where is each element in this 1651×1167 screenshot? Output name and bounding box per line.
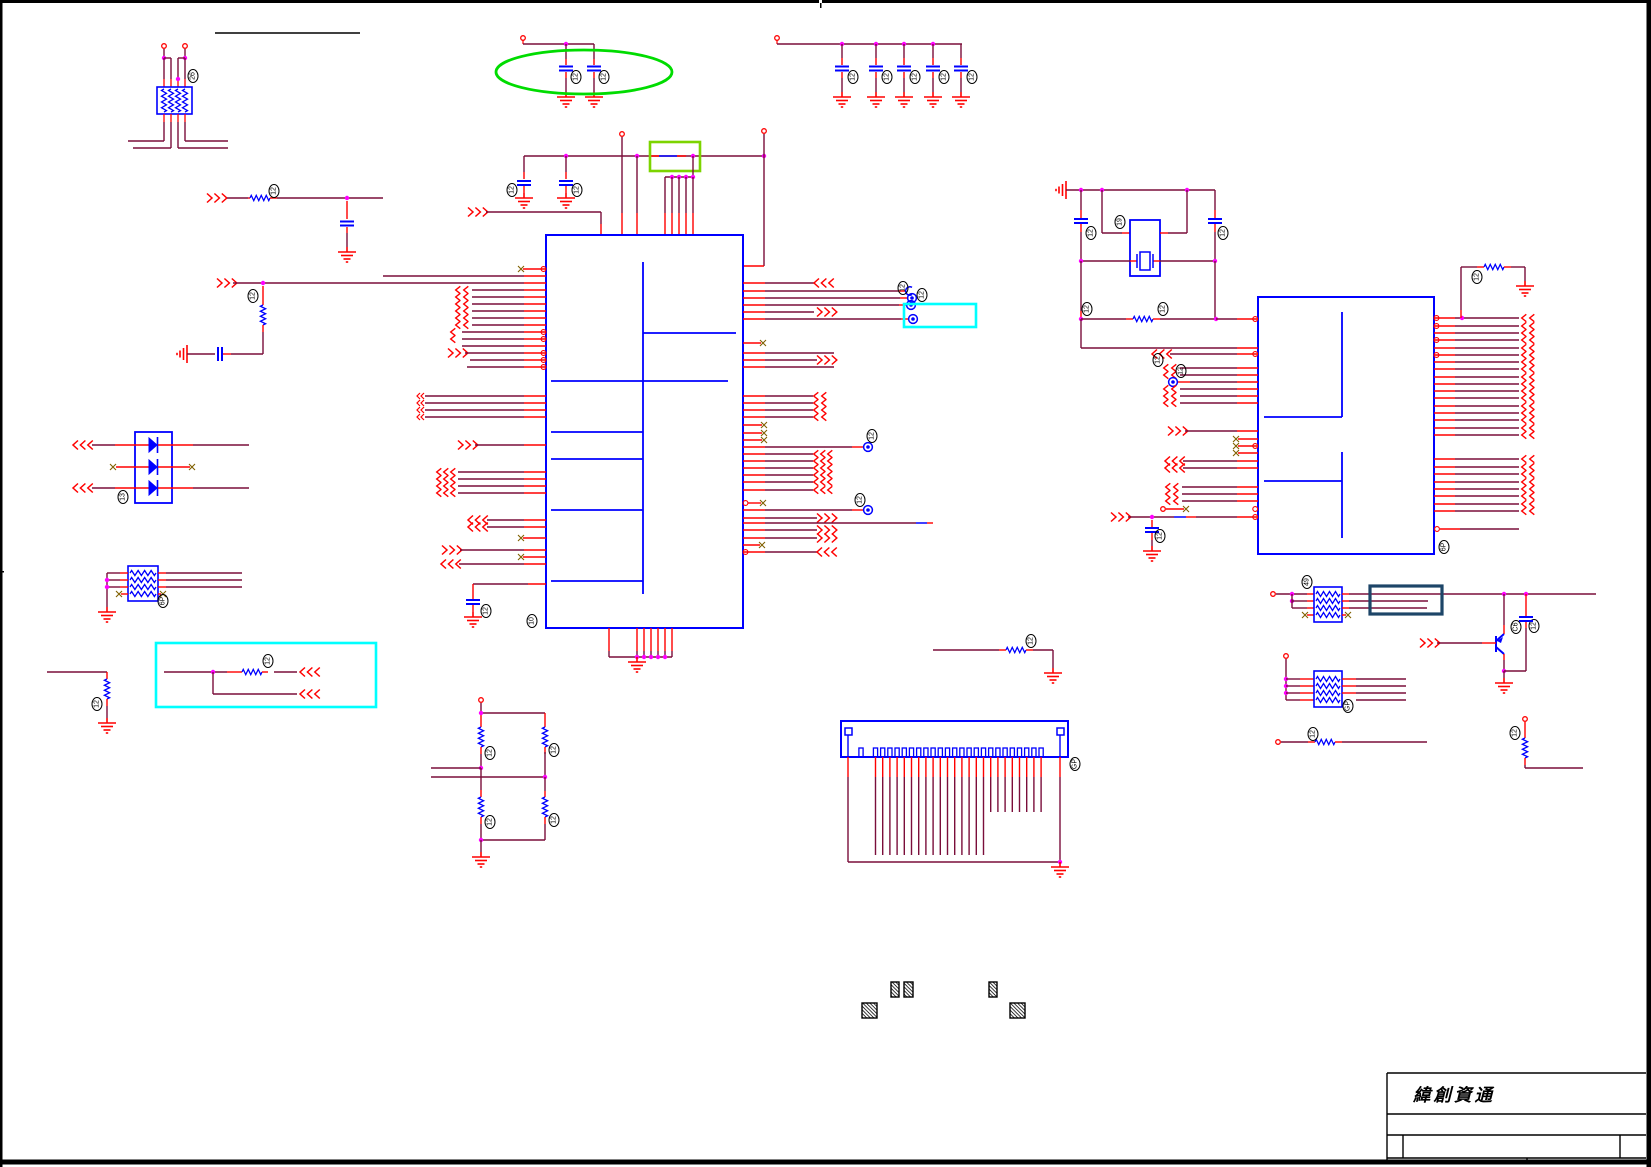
svg-text:12: 12	[912, 73, 919, 81]
svg-text:12: 12	[573, 73, 580, 81]
svg-text:12: 12	[265, 657, 272, 665]
svg-text:12: 12	[1220, 229, 1227, 237]
svg-text:12: 12	[601, 73, 608, 81]
svg-text:12: 12	[884, 73, 891, 81]
svg-text:12: 12	[551, 746, 558, 754]
svg-text:12: 12	[900, 284, 907, 292]
svg-text:49: 49	[1304, 578, 1311, 586]
svg-text:GP: GP	[1072, 759, 1079, 769]
svg-text:12: 12	[1310, 730, 1317, 738]
svg-text:12: 12	[850, 73, 857, 81]
svg-text:12: 12	[1178, 367, 1185, 375]
svg-text:12: 12	[869, 432, 876, 440]
svg-text:19: 19	[1117, 218, 1124, 226]
svg-text:12: 12	[919, 291, 926, 299]
svg-text:12: 12	[1157, 532, 1164, 540]
svg-text:12: 12	[250, 292, 257, 300]
svg-text:12: 12	[271, 187, 278, 195]
svg-text:12: 12	[1088, 229, 1095, 237]
svg-text:12: 12	[857, 496, 864, 504]
svg-text:12: 12	[941, 73, 948, 81]
svg-text:12: 12	[483, 607, 490, 615]
svg-text:12: 12	[1160, 305, 1167, 313]
svg-text:6P: 6P	[160, 596, 167, 605]
svg-text:26: 26	[190, 72, 197, 80]
svg-text:GP: GP	[1345, 701, 1352, 711]
svg-text:12: 12	[1084, 305, 1091, 313]
svg-text:C6: C6	[1513, 622, 1520, 631]
svg-text:緯創資通: 緯創資通	[1412, 1085, 1495, 1105]
svg-text:12: 12	[509, 186, 516, 194]
svg-text:13: 13	[120, 493, 127, 501]
svg-text:12: 12	[487, 818, 494, 826]
svg-text:10: 10	[529, 617, 536, 625]
svg-text:12: 12	[574, 186, 581, 194]
svg-text:12: 12	[1531, 622, 1538, 630]
svg-text:6P: 6P	[1441, 542, 1448, 551]
svg-text:12: 12	[1512, 729, 1519, 737]
svg-text:12: 12	[94, 700, 101, 708]
svg-text:12: 12	[1028, 637, 1035, 645]
svg-text:12: 12	[969, 73, 976, 81]
svg-text:12: 12	[551, 816, 558, 824]
svg-text:12: 12	[1155, 356, 1162, 364]
svg-text:12: 12	[1474, 273, 1481, 281]
svg-text:12: 12	[487, 749, 494, 757]
